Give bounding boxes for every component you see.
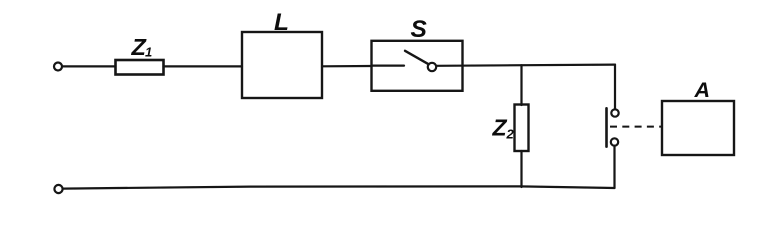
wire Z1 to L [164,65,243,67]
resistor Z1 [116,60,164,75]
switch box S [372,41,463,91]
wire corner down to contact [614,65,616,110]
wire contact to bottom rail [613,146,615,188]
terminal top-left input [54,63,62,71]
contact movable bar [605,108,608,146]
dashed actuation link [610,126,662,128]
bottom rail wire [64,186,615,188]
svg-text:L: L [274,9,289,36]
switch blade [405,51,429,64]
terminal bottom-left input [54,185,62,193]
wire Z2 to bottom rail [520,151,522,187]
contact lower fixed circle [611,138,618,145]
impedance Z2 [515,105,529,152]
wire L to S [322,65,372,68]
wire into switch [372,64,405,66]
svg-text:1: 1 [145,45,152,60]
actuator block A [662,101,734,155]
switch contact circle [428,63,436,71]
wire S to top-right corner [437,65,616,66]
svg-text:2: 2 [506,127,515,142]
block L [242,32,322,98]
wire terminal to Z1 [63,65,115,67]
svg-text:S: S [411,16,428,43]
svg-text:A: A [694,78,711,102]
svg-text:Z: Z [492,115,508,141]
node junction to Z2 [520,65,522,105]
contact upper fixed circle [611,109,618,116]
